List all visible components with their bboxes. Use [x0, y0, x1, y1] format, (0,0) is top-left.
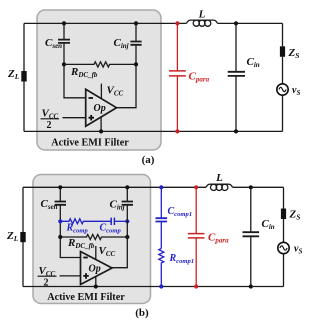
label Active EMI Filter (a)	[51, 138, 129, 149]
op-amp minus input mark (a)	[89, 97, 94, 99]
capacitor C_para (b)	[188, 187, 205, 286]
resistor R_comp (b)	[60, 219, 110, 224]
wire left column (a)	[23, 23, 25, 131]
op-amp minus input mark (b)	[83, 257, 88, 259]
capacitor C_sen (b)	[55, 187, 81, 257]
node C_para bottom (b)	[194, 284, 198, 288]
op-amp U1 (b)	[81, 252, 113, 285]
label C_inj (a)	[114, 37, 129, 50]
op-amp U1 (a)	[86, 89, 117, 126]
svg-text:Active EMI Filter: Active EMI Filter	[51, 138, 129, 149]
impedance Z_L (a)	[21, 71, 26, 82]
svg-text:L: L	[215, 172, 223, 184]
svg-text:Active EMI Filter: Active EMI Filter	[47, 292, 125, 303]
label R_DC_fb (a)	[70, 66, 98, 79]
node C_inj top (a)	[134, 21, 138, 25]
label R_comp1 (b)	[169, 253, 195, 265]
node R_DC_fb left (b)	[58, 235, 62, 239]
source v_S (a)	[277, 84, 288, 95]
node C_sen top (b)	[58, 185, 62, 189]
label (a)	[142, 154, 155, 166]
node R_comp left (b)	[58, 219, 62, 223]
Active EMI Filter box (a)	[37, 10, 161, 150]
node op-amp supply / bottom rail (a)	[99, 129, 103, 133]
impedance Z_S (b)	[281, 209, 286, 220]
source v_S (b)	[278, 242, 289, 253]
node C_para bottom (a)	[175, 129, 179, 133]
label L (b)	[215, 172, 223, 184]
pin op-amp bottom supply (b)	[95, 277, 97, 287]
label C_para (b)	[208, 232, 229, 245]
label C_para (a)	[189, 71, 210, 84]
node C_comp right (b)	[125, 219, 129, 223]
label R_DC_fb (b)	[67, 237, 95, 250]
svg-text:L: L	[198, 9, 206, 21]
label V_CC/2 (b)	[38, 265, 57, 289]
node op-amp supply / bottom rail (b)	[94, 284, 98, 288]
label (b)	[135, 307, 149, 319]
label V_CC (a)	[107, 85, 124, 98]
label C_sen (a)	[45, 37, 62, 50]
svg-text:Op: Op	[94, 103, 106, 114]
label Z_L (a)	[7, 68, 20, 81]
label C_inj (b)	[110, 199, 125, 212]
node L/C_in (b)	[249, 185, 253, 189]
pin V_CC (b)	[95, 246, 97, 259]
node C_sen top (a)	[62, 21, 66, 25]
wire plus input (a)	[63, 117, 86, 119]
pin V_CC (a)	[100, 84, 102, 99]
svg-text:(b): (b)	[135, 307, 149, 319]
op-amp plus input mark (b)	[83, 273, 89, 279]
node C_in bottom (a)	[234, 129, 238, 133]
impedance Z_L (b)	[20, 232, 25, 242]
label C_in (b)	[262, 218, 275, 231]
wire bottom rail (b)	[23, 286, 284, 288]
node C_sen/R_DC_fb (a)	[62, 62, 66, 66]
label L (a)	[198, 9, 206, 21]
inductor L (a)	[187, 20, 218, 26]
label V_CC (b)	[99, 245, 116, 258]
capacitor C_in (b)	[243, 187, 260, 286]
label V_CC/2 (a)	[41, 108, 60, 132]
wire right column (a)	[282, 23, 284, 131]
pin op-amp bottom supply (a)	[100, 117, 102, 131]
capacitor C_para (a)	[169, 23, 186, 131]
node C_inj top (b)	[125, 185, 129, 189]
label v_S (b)	[294, 244, 302, 256]
label Op (a)	[94, 103, 106, 114]
svg-text:(a): (a)	[142, 154, 155, 166]
wire bottom rail (a)	[24, 130, 283, 132]
svg-text:2: 2	[47, 120, 52, 131]
wire plus input (b)	[60, 275, 81, 277]
label C_comp (b)	[100, 223, 122, 235]
svg-text:Op: Op	[89, 264, 101, 275]
capacitor C_sen (a)	[58, 23, 86, 97]
capacitor C_inj (a)	[117, 23, 142, 107]
capacitor C_comp1 (b)	[156, 187, 168, 248]
node L/C_in (a)	[234, 21, 238, 25]
inductor L (b)	[206, 184, 233, 190]
wire top rail (a)	[24, 22, 283, 24]
node C_para top (a)	[175, 21, 179, 25]
node blue branch top (b)	[159, 185, 163, 189]
label C_in (a)	[247, 56, 260, 69]
capacitor C_inj (b)	[112, 187, 133, 267]
wire left column (b)	[22, 187, 24, 286]
label Z_L (b)	[6, 230, 19, 243]
wire right column (b)	[283, 187, 285, 286]
capacitor C_comp (b)	[111, 218, 127, 225]
Active EMI Filter box (b)	[33, 175, 151, 304]
capacitor C_in (a)	[228, 23, 245, 131]
op-amp plus input mark (a)	[89, 115, 95, 121]
impedance Z_S (a)	[280, 46, 285, 57]
resistor R_comp1 (b)	[159, 249, 164, 287]
label R_comp (b)	[66, 223, 89, 235]
label Op (b)	[89, 264, 101, 275]
node blue branch bottom (b)	[159, 284, 163, 288]
label Z_S (a)	[288, 47, 300, 60]
resistor R_DC_fb (a)	[64, 62, 136, 67]
label C_comp1 (b)	[168, 206, 193, 218]
label Active EMI Filter (b)	[47, 292, 125, 303]
node C_para top (b)	[194, 185, 198, 189]
resistor R_DC_fb (b)	[60, 235, 127, 240]
wire top rail (b)	[23, 186, 284, 188]
node C_inj/R_DC_fb (a)	[134, 62, 138, 66]
svg-text:2: 2	[44, 278, 49, 289]
node R_DC_fb right (b)	[125, 235, 129, 239]
node C_in bottom (b)	[249, 284, 253, 288]
label Z_S (b)	[289, 209, 301, 222]
label C_sen (b)	[41, 198, 58, 211]
label v_S (a)	[292, 85, 300, 97]
